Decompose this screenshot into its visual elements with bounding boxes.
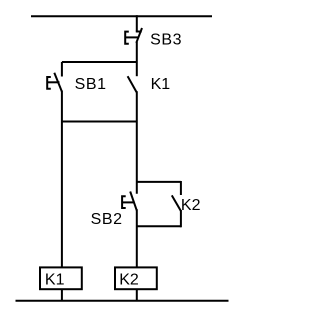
- wire: K2 branch bottom horizontal: [137, 225, 181, 227]
- pushbutton SB1 actuator cap: [47, 77, 51, 89]
- pushbutton SB2 actuator cap: [122, 196, 126, 208]
- coil K2 box: [115, 267, 157, 289]
- wire: K2 contact down to bottom of branch: [180, 210, 182, 227]
- svg-text:SB2: SB2: [91, 211, 123, 228]
- pushbutton SB1 actuator rod: [47, 81, 59, 83]
- svg-text:K2: K2: [181, 197, 201, 214]
- wire: coil K1 to bottom rail: [61, 289, 63, 300]
- pushbutton SB3 actuator rod: [125, 36, 138, 38]
- wire: top junction horizontal: [62, 61, 137, 63]
- svg-text:SB1: SB1: [75, 76, 107, 93]
- wire: K2 branch down to K2 contact: [180, 181, 182, 195]
- wire: SB3 to K1 contact (through top junction): [136, 42, 138, 76]
- bottom supply rail: [16, 300, 229, 302]
- svg-text:SB3: SB3: [150, 32, 182, 49]
- wire: K1 contact down to SB2: [136, 91, 138, 193]
- svg-text:K1: K1: [45, 272, 65, 289]
- svg-text:K1: K1: [151, 76, 171, 93]
- pushbutton SB2 (NO) moving contact: [130, 192, 137, 211]
- contact K1 (NO) moving contact: [128, 76, 137, 92]
- wire: coil K2 to bottom rail: [136, 289, 138, 300]
- pushbutton SB2 actuator rod: [122, 201, 135, 203]
- wire: bottom junction horizontal of parallel SB1/K1: [62, 121, 137, 123]
- pushbutton SB3 (NC) fixed contact bar: [136, 31, 142, 33]
- pushbutton SB3 actuator cap: [125, 32, 129, 44]
- coil K1 box: [40, 267, 82, 289]
- pushbutton SB1 (NO) moving contact: [54, 73, 62, 92]
- wire: SB1 down to coil K1 (left branch): [61, 91, 63, 268]
- wire: K2 branch top horizontal: [137, 181, 181, 183]
- top supply rail: [31, 15, 212, 17]
- wire: SB2 down to coil K2: [136, 209, 138, 268]
- contact K2 (NO) moving contact: [172, 195, 181, 211]
- wire: top rail to SB3: [136, 15, 138, 31]
- svg-text:K2: K2: [119, 272, 139, 289]
- pushbutton SB3 (NC) moving contact: [136, 28, 142, 43]
- wire: junction down to SB1: [61, 62, 63, 77]
